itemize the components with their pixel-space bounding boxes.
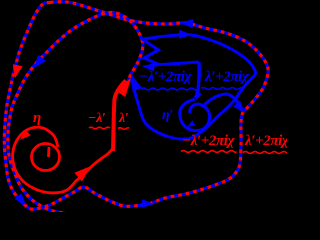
bottom line of fold with left arrow [150, 62, 199, 65]
exit strand from small loop to junction [204, 94, 242, 109]
red arrow on loop A left side [13, 64, 23, 78]
blue arrow on loop A bottom-left [15, 193, 26, 205]
label eta-prime [162, 109, 173, 123]
blue arrow at branch point [131, 74, 142, 92]
wavy cut under -lambda'+2pi-i-chi (red) [181, 151, 236, 153]
dashed contour arc B (blue dashes) [8, 12, 143, 215]
blue arrow at left end of fold line [142, 63, 155, 71]
eta spiral inner circle [32, 144, 60, 171]
wavy cut under lambda'+2pi-i-chi (red) [243, 152, 288, 154]
label -lambda'+2pi-i-chi (blue) [139, 70, 191, 85]
blue arrow on loop A top line [180, 19, 193, 28]
red cut line up to branch point [113, 81, 126, 152]
red arrow at branch point [115, 78, 131, 97]
label lambda'+2pi-i-chi (blue) [205, 70, 248, 85]
blue arrow on arc B [34, 55, 46, 68]
red arrow on eta exit arm [74, 166, 91, 182]
wavy cut under lambda' (red) [118, 128, 129, 130]
label lambda'+2pi-i-chi (red) [245, 134, 288, 149]
wavy cut under -lambda' (red) [89, 127, 110, 129]
blue arrow on loop A bottom [142, 199, 154, 208]
eta spiral inner tick [47, 147, 50, 157]
eta spiral outer loop [13, 127, 113, 193]
fold zigzag on big loop [142, 39, 159, 65]
eta-prime big loop [132, 34, 256, 139]
label -lambda-prime [88, 112, 105, 126]
dashed contour arc B (red dashes) [8, 12, 143, 215]
label lambda-prime [119, 112, 128, 126]
blue arrow on small loop [187, 120, 195, 127]
red arrow on eta outer loop [20, 130, 31, 140]
blue arrow at dashed junction [233, 101, 244, 113]
label eta [33, 111, 41, 126]
dashed contour loop A (red dashes) [4, 2, 268, 209]
eta-prime small loop [180, 99, 210, 131]
blue arrow on big loop top [179, 30, 192, 39]
wavy cut under -lambda'+2pi-i-chi (blue) [141, 88, 196, 90]
label -lambda'+2pi-i-chi (red) [182, 134, 234, 149]
vertical cut line between blue labels [196, 62, 200, 98]
wavy cut under lambda'+2pi-i-chi (blue) [201, 88, 243, 90]
dashed contour loop A (blue dashes) [4, 2, 268, 209]
blue arrow on cut into small loop [195, 91, 202, 100]
